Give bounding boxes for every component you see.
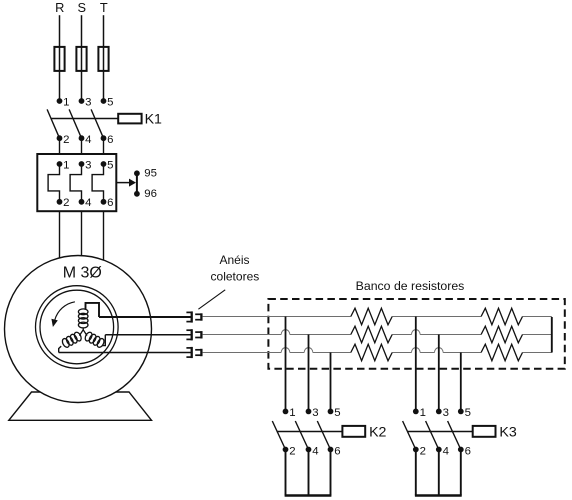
svg-text:R: R bbox=[55, 0, 64, 15]
svg-text:4: 4 bbox=[85, 134, 91, 146]
svg-text:M 3Ø: M 3Ø bbox=[63, 265, 102, 282]
svg-text:Anéis: Anéis bbox=[219, 253, 249, 267]
svg-text:5: 5 bbox=[334, 407, 340, 419]
svg-text:4: 4 bbox=[312, 446, 318, 458]
svg-text:5: 5 bbox=[107, 97, 113, 109]
svg-text:T: T bbox=[100, 0, 108, 15]
svg-text:3: 3 bbox=[443, 407, 449, 419]
svg-text:5: 5 bbox=[107, 160, 113, 172]
svg-text:3: 3 bbox=[85, 160, 91, 172]
svg-text:1: 1 bbox=[420, 407, 426, 419]
svg-text:2: 2 bbox=[420, 446, 426, 458]
svg-text:5: 5 bbox=[465, 407, 471, 419]
svg-text:1: 1 bbox=[289, 407, 295, 419]
svg-text:3: 3 bbox=[85, 97, 91, 109]
svg-text:K2: K2 bbox=[369, 424, 386, 440]
svg-text:6: 6 bbox=[107, 197, 113, 209]
svg-text:2: 2 bbox=[63, 197, 69, 209]
svg-text:4: 4 bbox=[85, 197, 91, 209]
svg-text:6: 6 bbox=[107, 134, 113, 146]
svg-text:2: 2 bbox=[63, 134, 69, 146]
svg-text:K1: K1 bbox=[145, 111, 162, 127]
svg-text:3: 3 bbox=[312, 407, 318, 419]
svg-text:Banco de resistores: Banco de resistores bbox=[356, 279, 465, 293]
svg-text:1: 1 bbox=[63, 97, 69, 109]
svg-text:95: 95 bbox=[144, 168, 157, 180]
svg-text:coletores: coletores bbox=[211, 270, 260, 284]
svg-text:K3: K3 bbox=[499, 424, 516, 440]
svg-text:2: 2 bbox=[289, 446, 295, 458]
svg-text:6: 6 bbox=[465, 446, 471, 458]
svg-text:S: S bbox=[78, 0, 87, 15]
svg-text:6: 6 bbox=[334, 446, 340, 458]
svg-text:4: 4 bbox=[443, 446, 449, 458]
svg-text:1: 1 bbox=[63, 160, 69, 172]
svg-text:96: 96 bbox=[144, 188, 157, 200]
